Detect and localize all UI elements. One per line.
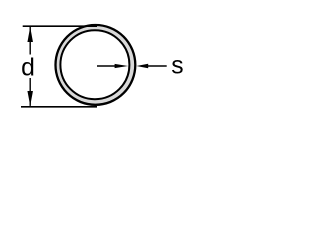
svg-text:d: d xyxy=(21,55,35,82)
svg-text:s: s xyxy=(171,53,183,80)
